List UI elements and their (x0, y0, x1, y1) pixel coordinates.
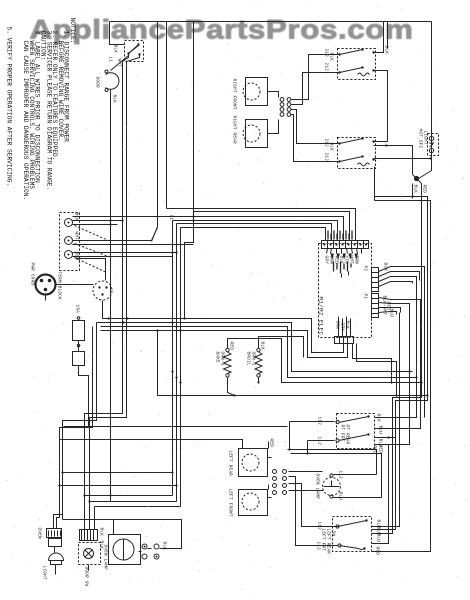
svg-text:WHT: WHT (349, 256, 354, 265)
svg-text:M1/M2 ELEC: M1/M2 ELEC (318, 297, 325, 336)
svg-text:DOOR SW: DOOR SW (84, 567, 89, 587)
svg-text:BLU: BLU (389, 309, 394, 318)
svg-text:OVEN: OVEN (37, 528, 42, 540)
svg-text:212: 212 (324, 63, 329, 72)
svg-text:BLK: BLK (329, 143, 334, 152)
svg-text:L1: L1 (169, 215, 174, 221)
svg-text:RED: RED (372, 446, 377, 455)
svg-text:BLK: BLK (383, 263, 388, 272)
svg-text:BLK: BLK (112, 95, 117, 104)
svg-text:5. VERIFY PROPER OPERATION AFT: 5. VERIFY PROPER OPERATION AFTER SERVICI… (6, 27, 13, 187)
svg-text:DOOR: DOOR (95, 77, 100, 89)
svg-text:HOT SFC: HOT SFC (418, 129, 423, 149)
svg-text:RIGHT FRONT: RIGHT FRONT (232, 79, 237, 110)
svg-text:RED: RED (74, 252, 79, 261)
svg-text:112: 112 (338, 471, 343, 480)
svg-text:BRN: BRN (354, 256, 359, 265)
svg-text:RED: RED (269, 439, 274, 448)
svg-text:LIGHT: LIGHT (42, 566, 47, 580)
svg-text:ORN-2: ORN-2 (251, 352, 256, 366)
svg-text:BLK: BLK (260, 342, 265, 351)
svg-text:212: 212 (324, 49, 329, 58)
svg-text:P1: P1 (363, 294, 368, 300)
svg-text:GRY: GRY (324, 256, 329, 265)
svg-text:RED: RED (422, 185, 427, 194)
svg-text:WHT: WHT (74, 232, 79, 241)
svg-text:AppliancePartsPros.com: AppliancePartsPros.com (30, 15, 414, 45)
svg-text:CAN CAUSE IMPROPER AND DANGERO: CAN CAUSE IMPROPER AND DANGEROUS OPERATI… (22, 41, 29, 201)
svg-text:RT REAR: RT REAR (345, 425, 350, 445)
svg-text:LIGHT: LIGHT (423, 131, 428, 145)
svg-text:RED: RED (378, 445, 383, 454)
svg-text:SW: SW (331, 531, 336, 537)
svg-text:LEFT FRONT: LEFT FRONT (228, 489, 233, 518)
svg-text:P2: P2 (363, 266, 368, 272)
svg-text:15A: 15A (75, 305, 80, 314)
svg-text:BLK: BLK (329, 53, 334, 62)
svg-text:112: 112 (316, 542, 321, 551)
svg-text:L1: L1 (108, 57, 113, 63)
svg-text:BROIL: BROIL (246, 352, 251, 366)
svg-text:BLU: BLU (378, 426, 383, 435)
svg-text:BLU: BLU (376, 534, 381, 543)
svg-text:RED: RED (229, 342, 234, 351)
svg-text:BLK: BLK (339, 256, 344, 265)
svg-text:BAKE: BAKE (215, 352, 220, 364)
svg-text:RED: RED (375, 547, 380, 556)
svg-text:BLK: BLK (162, 542, 167, 551)
svg-text:BLK: BLK (74, 213, 79, 222)
svg-text:RIGHT REAR: RIGHT REAR (232, 116, 237, 145)
svg-text:BLK: BLK (376, 414, 381, 423)
svg-text:112: 112 (317, 437, 322, 446)
svg-text:112: 112 (317, 417, 322, 426)
svg-text:BLK: BLK (99, 528, 104, 537)
svg-text:TERM BLOCK: TERM BLOCK (57, 272, 62, 301)
svg-text:212: 212 (324, 139, 329, 148)
svg-text:PWR CORD: PWR CORD (30, 263, 35, 286)
svg-text:ORN: ORN (335, 321, 340, 330)
svg-text:VIO: VIO (344, 256, 349, 265)
svg-text:LEFT REAR: LEFT REAR (326, 529, 331, 555)
svg-text:BLU: BLU (338, 492, 343, 501)
svg-text:ORN: ORN (329, 256, 334, 265)
svg-text:BLK: BLK (384, 46, 389, 55)
svg-text:BLK: BLK (413, 185, 418, 194)
svg-text:GRY: GRY (340, 323, 345, 332)
svg-text:LEFT REAR: LEFT REAR (228, 451, 233, 477)
svg-text:RT FRT: RT FRT (340, 425, 345, 442)
svg-text:212: 212 (324, 153, 329, 162)
svg-text:BLK: BLK (345, 321, 350, 330)
svg-text:OVEN LAMP: OVEN LAMP (315, 474, 320, 500)
svg-text:BLK: BLK (113, 45, 118, 54)
svg-text:RED: RED (334, 256, 339, 265)
svg-text:WHT: WHT (117, 59, 122, 68)
svg-text:LEFT FRT: LEFT FRT (321, 529, 326, 552)
svg-text:OVEN LAMP: OVEN LAMP (103, 545, 108, 571)
svg-text:ORN-1: ORN-1 (220, 352, 225, 366)
